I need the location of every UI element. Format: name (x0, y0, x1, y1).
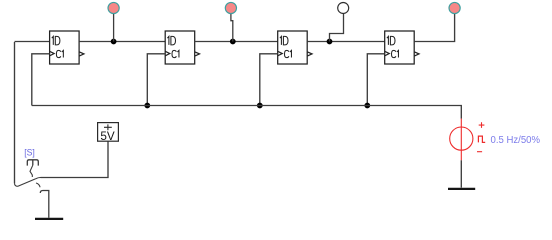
wire: net Q1 (U1 out to U2 1D) (79, 41, 165, 43)
battery V1 (5V) (98, 123, 119, 144)
junction: probe P1 tap on Q1 (111, 39, 117, 45)
wire: U2 pin C1 stub to clock bus (147, 54, 165, 106)
D flip-flop U2 (165, 31, 199, 64)
wire: probe P1 stem (113, 13, 115, 41)
wire: probe P3 stem (330, 12, 344, 41)
clock source CLK1 (450, 119, 485, 161)
wire: battery V1 to switch throw (41, 142, 109, 178)
svg-text:[S]: [S] (24, 147, 35, 157)
probe P1 (lit) (108, 2, 119, 13)
D flip-flop U3 (278, 31, 312, 64)
wire: probe P2 stem (231, 13, 233, 41)
probe P2 (lit) (225, 2, 236, 13)
wire: node D1 to U1 pin 1D (15, 41, 50, 43)
wire: clock bus CLK (32, 106, 462, 119)
ground GND2 (clock) (448, 188, 475, 190)
switch S1 (15, 147, 41, 187)
junction: U4 clock tap (364, 103, 370, 109)
wire: U3 pin C1 stub to clock bus (260, 54, 278, 106)
clock waveform glyph (478, 136, 485, 142)
svg-text:5V: 5V (100, 129, 114, 143)
junction: U2 clock tap (144, 103, 150, 109)
svg-text:0.5 Hz/50%: 0.5 Hz/50% (491, 135, 541, 146)
wire: switch throw 2 to ground (40, 191, 49, 218)
wire: net Q3 (U3 out to U4 1D) (307, 41, 384, 43)
wire: switch pole up to node D1 (left vertical) (14, 42, 16, 183)
wire: net Q4 (U4 out up to probe P4) (414, 13, 454, 41)
wire: net Q2 (U2 out to U3 1D) (195, 41, 278, 43)
D flip-flop U4 (385, 31, 419, 64)
junction: probe P2 tap on Q2 (230, 39, 236, 45)
junction: U3 clock tap (257, 103, 263, 109)
wire: clock to ground (460, 160, 462, 187)
wire: U1 pin C1 stub to clock bus (32, 54, 50, 106)
probe P4 (lit) (449, 2, 460, 13)
junction: probe P3 tap on Q3 (327, 39, 333, 45)
ground GND1 (switch) (35, 218, 63, 220)
wire: U4 pin C1 stub to clock bus (367, 54, 384, 106)
D flip-flop U1 (50, 31, 84, 64)
probe P3 (off) (338, 3, 349, 14)
